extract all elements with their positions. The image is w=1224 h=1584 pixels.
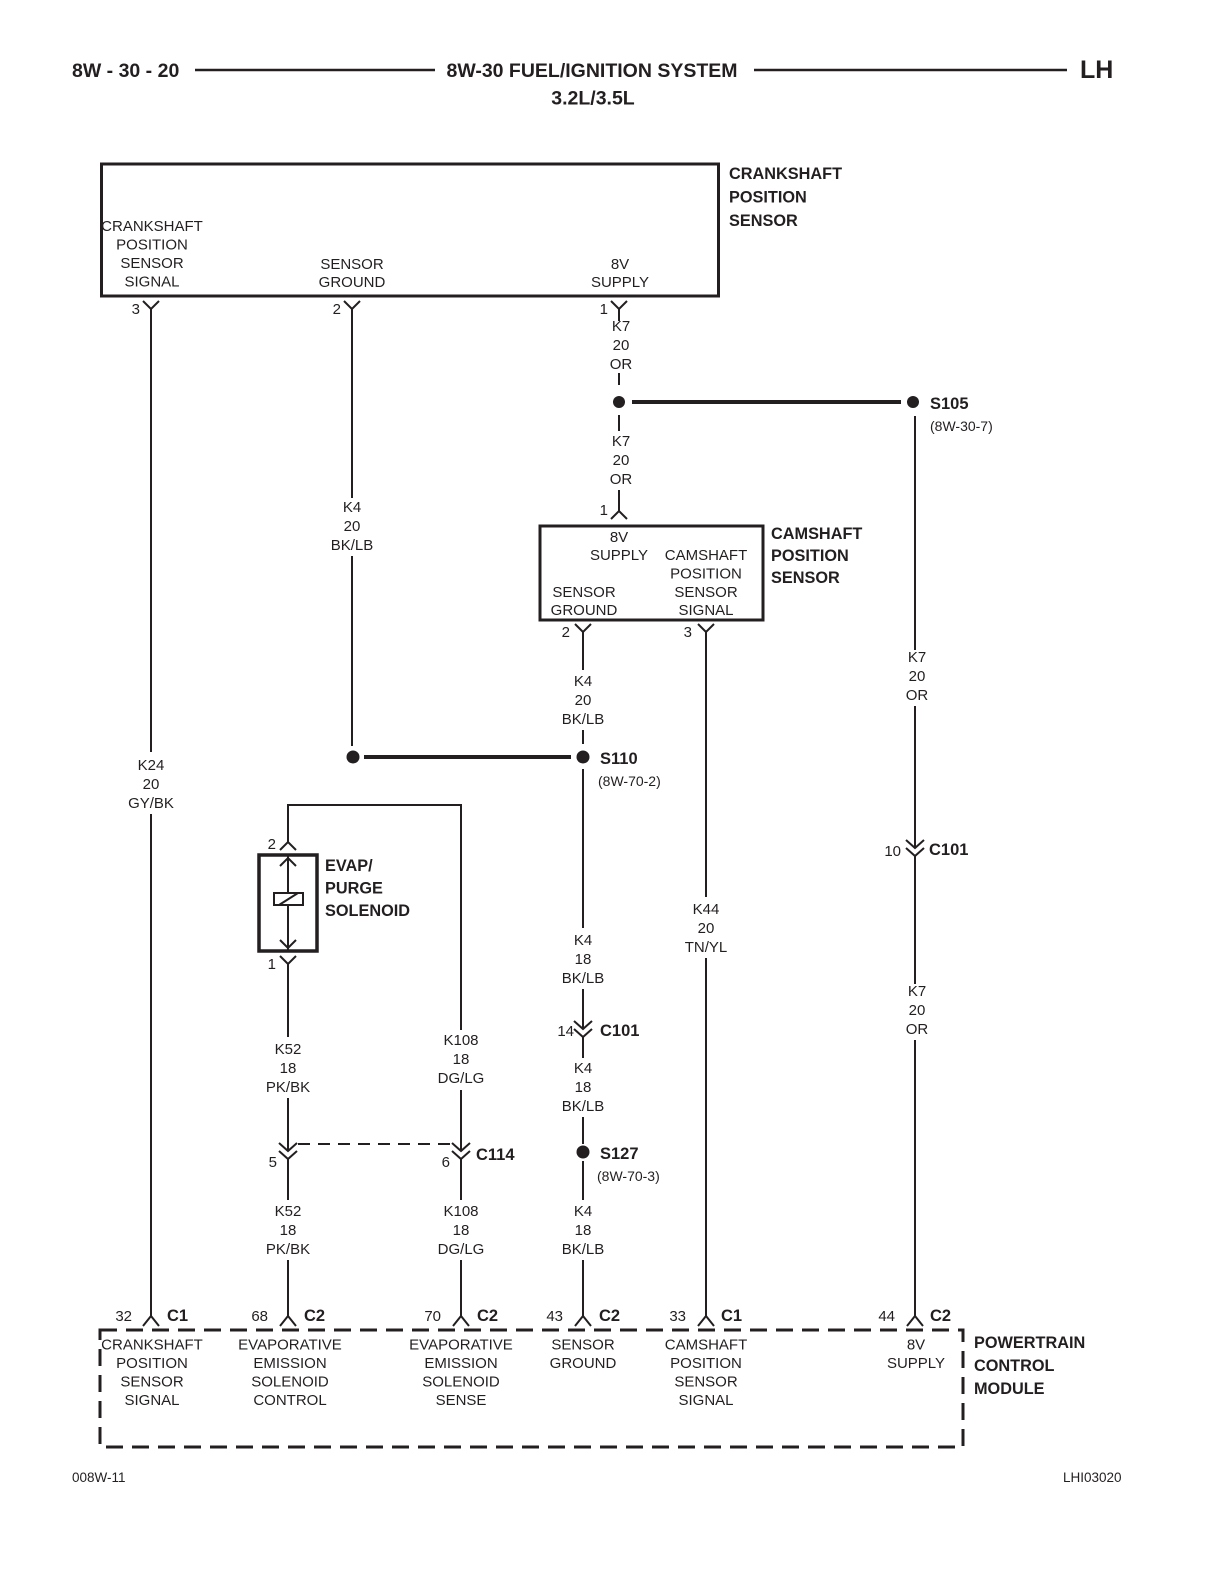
svg-text:SOLENOID: SOLENOID [422, 1374, 500, 1391]
pin 1 EVAP solenoid [268, 956, 296, 973]
svg-text:GROUND: GROUND [550, 1355, 617, 1372]
svg-text:C2: C2 [599, 1307, 620, 1325]
svg-text:18: 18 [453, 1051, 470, 1068]
wire K52 upper segment [287, 964, 289, 1037]
wire K24 lower segment [150, 814, 152, 1316]
svg-text:SENSE: SENSE [436, 1392, 487, 1409]
S105 bus wire [632, 400, 901, 404]
svg-text:K24: K24 [138, 757, 165, 774]
svg-text:8V: 8V [610, 529, 628, 546]
svg-text:K7: K7 [612, 318, 630, 335]
svg-text:EMISSION: EMISSION [253, 1355, 326, 1372]
svg-text:GROUND: GROUND [319, 274, 386, 291]
svg-text:1: 1 [600, 301, 608, 318]
dashed jumper between C114 pins 5 and 6 [298, 1143, 452, 1145]
svg-text:BK/LB: BK/LB [562, 970, 605, 987]
header page number 8W - 30 - 20 [72, 60, 179, 82]
crankshaft 8V supply terminal label [591, 256, 649, 291]
svg-text:1: 1 [268, 956, 276, 973]
svg-text:18: 18 [453, 1222, 470, 1239]
EVAP/PURGE solenoid box [259, 855, 317, 951]
wire K4 18 below S110 [582, 769, 584, 928]
svg-text:OR: OR [906, 687, 929, 704]
wire K4 camshaft ground upper segment [582, 632, 584, 670]
svg-text:K52: K52 [275, 1041, 302, 1058]
wire label K7 20 OR right lower [906, 983, 929, 1038]
wire K4 20 upper segment [351, 309, 353, 498]
PCM pin 70 C2 [424, 1307, 498, 1326]
svg-text:GY/BK: GY/BK [128, 795, 174, 812]
S110 reference (8W-70-2) [598, 773, 661, 789]
svg-text:SIGNAL: SIGNAL [678, 602, 733, 619]
svg-text:20: 20 [613, 337, 630, 354]
pin 2 EVAP solenoid [268, 836, 296, 853]
svg-text:EMISSION: EMISSION [424, 1355, 497, 1372]
PCM 8V supply label [887, 1337, 945, 1373]
camshaft position sensor name label [771, 525, 862, 587]
svg-text:OR: OR [906, 1021, 929, 1038]
svg-text:SENSOR: SENSOR [729, 212, 798, 230]
svg-text:SIGNAL: SIGNAL [678, 1392, 733, 1409]
crankshaft sensor ground terminal label [319, 256, 386, 291]
svg-text:SOLENOID: SOLENOID [251, 1374, 329, 1391]
svg-text:S105: S105 [930, 395, 969, 413]
svg-text:18: 18 [575, 1222, 592, 1239]
svg-text:44: 44 [878, 1308, 895, 1325]
svg-text:K52: K52 [275, 1203, 302, 1220]
PCM camshaft position sensor signal label [665, 1337, 748, 1410]
svg-text:20: 20 [698, 920, 715, 937]
wire K108 upper label area [438, 1032, 485, 1087]
wire label K24 20 GY/BK [128, 757, 174, 812]
crankshaft position sensor box [102, 164, 719, 296]
svg-text:SENSOR: SENSOR [551, 1337, 615, 1354]
svg-text:SENSOR: SENSOR [674, 584, 738, 601]
pin 3 crankshaft sensor [132, 301, 159, 318]
footer sheet number 008W-11 [72, 1470, 126, 1485]
svg-text:K4: K4 [574, 673, 592, 690]
svg-text:CONTROL: CONTROL [974, 1357, 1055, 1375]
S105 reference (8W-30-7) [930, 418, 993, 434]
svg-text:MODULE: MODULE [974, 1380, 1045, 1398]
svg-text:3: 3 [684, 624, 692, 641]
inline connector C101 pin 14 [557, 1021, 639, 1040]
svg-text:68: 68 [251, 1308, 268, 1325]
svg-text:CAMSHAFT: CAMSHAFT [665, 1337, 748, 1354]
svg-text:SENSOR: SENSOR [320, 256, 384, 273]
splice S110 right dot [577, 751, 590, 764]
camshaft sensor ground terminal label [551, 584, 618, 619]
svg-text:OR: OR [610, 356, 633, 373]
wire segment to C114 pin 6 [460, 1090, 462, 1150]
svg-text:SUPPLY: SUPPLY [591, 274, 649, 291]
svg-text:BK/LB: BK/LB [331, 537, 374, 554]
crankshaft sensor signal terminal label [101, 218, 203, 291]
svg-text:K4: K4 [574, 1060, 592, 1077]
header title 8W-30 FUEL/IGNITION SYSTEM [446, 60, 737, 82]
svg-text:BK/LB: BK/LB [562, 1098, 605, 1115]
svg-text:C101: C101 [600, 1022, 639, 1040]
svg-text:8W - 30 - 20: 8W - 30 - 20 [72, 60, 179, 82]
svg-text:SUPPLY: SUPPLY [887, 1355, 945, 1372]
PCM pin 32 C1 [115, 1307, 188, 1326]
header rule right [754, 69, 1067, 72]
svg-text:POSITION: POSITION [729, 189, 807, 207]
splice node S105 right dot [907, 396, 919, 408]
svg-text:C2: C2 [477, 1307, 498, 1325]
wire K4 20 lower segment to S110 [351, 556, 353, 746]
wire label K4 20 BK/LB camshaft [562, 673, 605, 728]
svg-text:8V: 8V [907, 1337, 925, 1354]
svg-text:32: 32 [115, 1308, 132, 1325]
svg-text:K4: K4 [574, 932, 592, 949]
wire segment below S127 [582, 1161, 584, 1200]
svg-text:70: 70 [424, 1308, 441, 1325]
svg-text:(8W-70-3): (8W-70-3) [597, 1168, 660, 1184]
PCM pin 43 C2 [546, 1307, 620, 1326]
powertrain control module dashed box [100, 1330, 963, 1447]
svg-text:18: 18 [575, 1079, 592, 1096]
splice S110 left dot [347, 751, 360, 764]
svg-text:CRANKSHAFT: CRANKSHAFT [729, 165, 842, 183]
svg-text:POWERTRAIN: POWERTRAIN [974, 1334, 1085, 1352]
svg-text:5: 5 [269, 1154, 277, 1171]
svg-text:K4: K4 [574, 1203, 592, 1220]
svg-text:CRANKSHAFT: CRANKSHAFT [101, 218, 203, 235]
svg-text:CONTROL: CONTROL [253, 1392, 326, 1409]
svg-text:SENSOR: SENSOR [674, 1374, 738, 1391]
svg-text:8V: 8V [611, 256, 629, 273]
svg-text:33: 33 [669, 1308, 686, 1325]
EVAP loop wire from pin 2 up and over [288, 805, 461, 1030]
svg-text:43: 43 [546, 1308, 563, 1325]
pin 3 camshaft sensor [684, 624, 714, 641]
svg-text:C1: C1 [167, 1307, 188, 1325]
header rule left [195, 69, 435, 72]
camshaft 8V supply terminal label [590, 529, 648, 564]
footer drawing id LHI03020 [1063, 1470, 1122, 1485]
svg-text:LH: LH [1080, 56, 1113, 84]
wire segment to C101 pin 14 [582, 989, 584, 1028]
svg-text:8W-30 FUEL/IGNITION SYSTEM: 8W-30 FUEL/IGNITION SYSTEM [446, 60, 737, 82]
PCM evaporative emission solenoid control label [238, 1337, 342, 1410]
wire label K4 20 BK/LB [331, 499, 374, 554]
wire K24 upper segment [150, 309, 152, 752]
S110 bus wire [364, 755, 571, 759]
svg-text:6: 6 [442, 1154, 450, 1171]
svg-text:BK/LB: BK/LB [562, 1241, 605, 1258]
svg-text:20: 20 [344, 518, 361, 535]
wire K44 upper segment [705, 632, 707, 897]
splice node S105 left dot [613, 396, 625, 408]
pin 2 crankshaft sensor [333, 301, 360, 318]
svg-text:K108: K108 [443, 1203, 478, 1220]
svg-text:LHI03020: LHI03020 [1063, 1470, 1122, 1485]
svg-text:POSITION: POSITION [670, 566, 742, 583]
wire K7 20 OR segment pin1 to label [618, 309, 620, 321]
PCM sensor ground label [550, 1337, 617, 1373]
PCM crankshaft position sensor signal label [101, 1337, 203, 1410]
svg-text:S110: S110 [600, 750, 638, 768]
svg-text:20: 20 [143, 776, 160, 793]
wire segment to PCM pin 68 [287, 1260, 289, 1316]
EVAP solenoid coil symbol [274, 893, 303, 905]
header LH [1080, 56, 1113, 84]
wire label K7 20 OR lower [610, 433, 633, 488]
svg-text:20: 20 [909, 1002, 926, 1019]
wire K52 lower segment from C114 [287, 1159, 289, 1200]
svg-text:10: 10 [884, 843, 901, 860]
wire label K4 18 BK/LB second [562, 1060, 605, 1115]
svg-text:008W-11: 008W-11 [72, 1470, 126, 1485]
wire label K7 20 OR upper [610, 318, 633, 373]
wire K7 right branch upper segment [914, 416, 916, 650]
svg-text:(8W-30-7): (8W-30-7) [930, 418, 993, 434]
svg-text:TN/YL: TN/YL [685, 939, 728, 956]
S127 reference (8W-70-3) [597, 1168, 660, 1184]
splice S127 dot [577, 1146, 590, 1159]
svg-text:SENSOR: SENSOR [120, 255, 184, 272]
PCM evaporative emission solenoid sense label [409, 1337, 513, 1410]
EVAP/PURGE SOLENOID name label [325, 857, 410, 920]
pin 1 crankshaft sensor [600, 301, 627, 318]
svg-text:2: 2 [268, 836, 276, 853]
svg-text:K44: K44 [693, 901, 720, 918]
svg-text:2: 2 [562, 624, 570, 641]
wire segment to S105 node [618, 373, 620, 385]
svg-text:18: 18 [575, 951, 592, 968]
wire K108 lower segment from C114 [460, 1159, 462, 1200]
svg-text:14: 14 [557, 1023, 574, 1040]
svg-text:EVAPORATIVE: EVAPORATIVE [238, 1337, 342, 1354]
camshaft position sensor box [540, 526, 763, 620]
svg-text:C2: C2 [930, 1307, 951, 1325]
wire label K4 18 BK/LB first [562, 932, 605, 987]
S105 label [930, 395, 969, 413]
svg-text:EVAP/: EVAP/ [325, 857, 373, 875]
PCM pin 68 C2 [251, 1307, 325, 1326]
svg-text:DG/LG: DG/LG [438, 1241, 485, 1258]
svg-text:SIGNAL: SIGNAL [124, 1392, 179, 1409]
svg-text:K4: K4 [343, 499, 361, 516]
svg-text:K108: K108 [443, 1032, 478, 1049]
svg-text:1: 1 [600, 502, 608, 519]
svg-text:K7: K7 [612, 433, 630, 450]
svg-text:C2: C2 [304, 1307, 325, 1325]
svg-text:C1: C1 [721, 1307, 742, 1325]
svg-text:20: 20 [909, 668, 926, 685]
svg-text:2: 2 [333, 301, 341, 318]
wire segment below C101 pin 10 [914, 856, 916, 984]
wire label K108 18 DG/LG lower [438, 1203, 485, 1258]
svg-text:GROUND: GROUND [551, 602, 618, 619]
EVAP solenoid inner wire with arrows [280, 855, 296, 951]
svg-text:DG/LG: DG/LG [438, 1070, 485, 1087]
wire label K44 20 TN/YL [685, 901, 728, 956]
wire K44 lower segment [705, 958, 707, 1316]
inline connector C114 pin 6 [442, 1143, 516, 1171]
svg-text:18: 18 [280, 1222, 297, 1239]
pin 2 camshaft sensor [562, 624, 591, 641]
POWERTRAIN CONTROL MODULE name label [974, 1334, 1085, 1398]
wire label K52 18 PK/BK lower [266, 1203, 310, 1258]
wire segment into camshaft pin 1 [618, 490, 620, 511]
svg-text:CAMSHAFT: CAMSHAFT [771, 525, 862, 543]
wire segment to PCM pin 44 [914, 1040, 916, 1316]
wire segment to C114 pin 5 [287, 1098, 289, 1150]
svg-text:PURGE: PURGE [325, 880, 383, 898]
camshaft signal terminal label [665, 547, 748, 619]
svg-text:SENSOR: SENSOR [552, 584, 616, 601]
svg-text:EVAPORATIVE: EVAPORATIVE [409, 1337, 513, 1354]
PCM pin 33 C1 [669, 1307, 742, 1326]
svg-text:20: 20 [613, 452, 630, 469]
svg-text:C114: C114 [476, 1146, 515, 1164]
svg-text:BK/LB: BK/LB [562, 711, 605, 728]
svg-text:S127: S127 [600, 1145, 639, 1163]
svg-text:PK/BK: PK/BK [266, 1079, 310, 1096]
svg-text:CAMSHAFT: CAMSHAFT [665, 547, 748, 564]
wire segment below C101 pin 14 [582, 1037, 584, 1058]
svg-text:K7: K7 [908, 983, 926, 1000]
pin 1 camshaft sensor [600, 502, 627, 519]
svg-text:POSITION: POSITION [116, 237, 188, 254]
wire segment to C101 pin 10 [914, 706, 916, 847]
crankshaft position sensor name label [729, 165, 842, 230]
svg-text:POSITION: POSITION [771, 547, 849, 565]
wire segment to S110 [582, 730, 584, 744]
svg-text:OR: OR [610, 471, 633, 488]
svg-text:SIGNAL: SIGNAL [124, 274, 179, 291]
inline connector C101 pin 10 [884, 840, 968, 860]
svg-text:CRANKSHAFT: CRANKSHAFT [101, 1337, 203, 1354]
svg-text:3.2L/3.5L: 3.2L/3.5L [551, 88, 635, 110]
svg-text:SUPPLY: SUPPLY [590, 547, 648, 564]
inline connector C114 pin 5 [269, 1143, 297, 1171]
svg-text:(8W-70-2): (8W-70-2) [598, 773, 661, 789]
PCM pin 44 C2 [878, 1307, 951, 1326]
header subtitle 3.2L/3.5L [551, 88, 635, 110]
svg-text:3: 3 [132, 301, 140, 318]
S110 label [600, 750, 638, 768]
wire segment to PCM pin 43 [582, 1260, 584, 1316]
svg-text:K7: K7 [908, 649, 926, 666]
svg-text:PK/BK: PK/BK [266, 1241, 310, 1258]
svg-text:SENSOR: SENSOR [120, 1374, 184, 1391]
wire segment to PCM pin 70 [460, 1260, 462, 1316]
svg-text:18: 18 [280, 1060, 297, 1077]
svg-text:POSITION: POSITION [116, 1355, 188, 1372]
S127 label [600, 1145, 639, 1163]
svg-text:SOLENOID: SOLENOID [325, 902, 410, 920]
wire label K7 20 OR right upper [906, 649, 929, 704]
svg-text:20: 20 [575, 692, 592, 709]
svg-text:POSITION: POSITION [670, 1355, 742, 1372]
svg-text:SENSOR: SENSOR [771, 569, 840, 587]
wire label K4 18 BK/LB third [562, 1203, 605, 1258]
wire segment to S127 [582, 1117, 584, 1144]
svg-text:C101: C101 [929, 841, 968, 859]
wire label K52 18 PK/BK upper [266, 1041, 310, 1096]
wire segment below S105 [618, 415, 620, 431]
